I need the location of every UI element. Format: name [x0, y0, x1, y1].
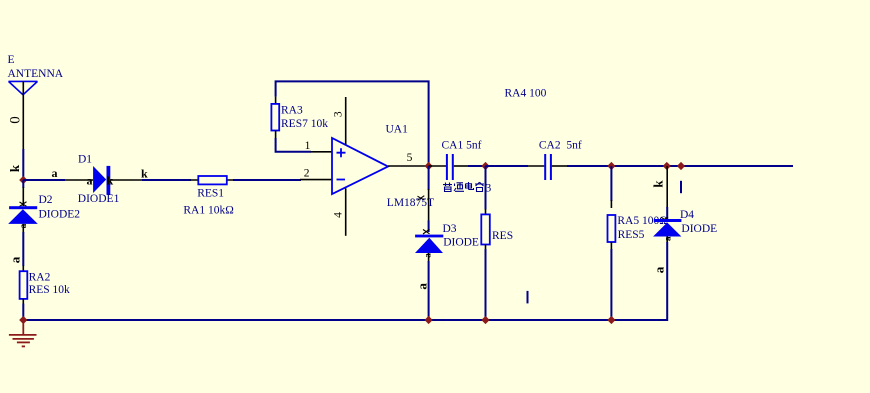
resistor RES8 top pin — [485, 209, 487, 214]
antenna pin (black stem) — [22, 81, 24, 150]
resistor RES8 bottom pin — [485, 245, 487, 251]
svg-text:0: 0 — [8, 116, 24, 124]
svg-text:RA2: RA2 — [29, 272, 51, 284]
RA5 branch — [610, 166, 612, 201]
diode D1 — [93, 166, 110, 195]
svg-text:3: 3 — [332, 111, 344, 117]
wire D1 to RES1 — [142, 179, 191, 181]
antenna E / ANTENNA symbol — [9, 81, 38, 94]
output junction — [425, 162, 433, 170]
diode D1 pin right — [110, 179, 142, 181]
resistor RA5 bottom pin — [610, 242, 612, 250]
op-amp U A1 triangle — [332, 138, 388, 194]
D3 pin below — [428, 253, 430, 262]
junction at 429,320 — [425, 316, 433, 324]
wire antenna to junction — [22, 149, 24, 179]
svg-text:k: k — [7, 164, 22, 172]
diode D1 pin left — [65, 179, 93, 181]
minus sign — [337, 179, 346, 181]
D4 branch pin — [666, 166, 668, 208]
svg-text:RA1 10kΩ: RA1 10kΩ — [183, 205, 233, 217]
bottom rail — [23, 319, 667, 321]
svg-text:RES1: RES1 — [197, 188, 224, 200]
plus sign — [337, 148, 346, 157]
svg-text:E: E — [8, 54, 15, 66]
resistor RA2 body — [20, 271, 28, 299]
junction at 667,166 — [663, 162, 671, 170]
wire CA1 to junction — [468, 165, 486, 167]
ground symbol — [9, 322, 37, 346]
small k cross near LM1875T — [418, 196, 425, 201]
svg-text:RES 10k: RES 10k — [29, 284, 70, 296]
svg-text:k: k — [651, 180, 666, 188]
svg-text:a: a — [423, 253, 433, 258]
diode D4 — [653, 219, 681, 237]
resistor RA5 body — [608, 215, 616, 242]
junction at 485,320 — [481, 316, 489, 324]
svg-text:D1: D1 — [78, 153, 92, 165]
diode D2 bottom pin — [22, 224, 24, 233]
junction at 681,166 — [677, 162, 685, 170]
svg-text:a: a — [52, 166, 58, 180]
wire to D4 — [666, 207, 668, 220]
wire left net y=180 — [23, 179, 65, 181]
wire RA3 to pin1 — [276, 138, 311, 152]
capacitor CA2 left pin — [528, 165, 544, 167]
RES8 branch — [485, 166, 487, 210]
op-amp pin 4 — [345, 188, 347, 236]
wire RA5 to bottom rail — [610, 249, 612, 319]
junction at 611,166 — [607, 162, 615, 170]
junction at 23,320 — [19, 316, 27, 324]
resistor RES8 body — [481, 214, 490, 244]
svg-text:RA4 100: RA4 100 — [505, 88, 547, 100]
svg-text:DIODE2: DIODE2 — [39, 209, 81, 221]
capacitor CA2 right pin — [552, 165, 567, 167]
svg-text:ANTENNA: ANTENNA — [8, 68, 64, 80]
op-amp output pin 5 — [388, 165, 428, 167]
capacitor CA1 — [447, 154, 453, 180]
junction at 485,166 — [481, 162, 489, 170]
wire RES1 to pin2 — [233, 179, 301, 181]
op-amp pin 2 — [300, 179, 332, 181]
svg-text:CA2 5nf: CA2 5nf — [539, 139, 582, 151]
svg-text:UA1: UA1 — [386, 123, 409, 135]
svg-text:5: 5 — [407, 152, 413, 164]
svg-text:DIODE: DIODE — [443, 237, 479, 249]
op-amp pin 1 — [311, 151, 332, 153]
wire to D3 — [428, 221, 430, 233]
resistor RES1 body — [198, 176, 227, 184]
D4 pin below — [666, 237, 668, 244]
pin label k at D4 (cross) — [661, 217, 668, 222]
label 普通电容3 (drawn glyphs) — [443, 182, 484, 192]
capacitor CA1 right pin — [454, 165, 468, 167]
D2 branch: pin from junction down — [22, 180, 24, 188]
svg-text:RES: RES — [492, 230, 513, 242]
junction at 611,320 — [607, 316, 615, 324]
svg-text:RA3: RA3 — [281, 104, 303, 116]
svg-text:D4: D4 — [680, 209, 694, 221]
svg-text:a: a — [8, 256, 23, 263]
resistor RA2 bottom pin — [22, 299, 24, 305]
svg-text:1: 1 — [305, 140, 311, 152]
svg-text:a: a — [652, 266, 667, 273]
svg-text:RES5: RES5 — [618, 229, 645, 241]
resistor RA3 body — [271, 104, 279, 131]
svg-text:DIODE1: DIODE1 — [78, 193, 120, 205]
diode D2 top pin — [22, 187, 24, 206]
resistor RES1 pins — [191, 179, 234, 181]
svg-text:2: 2 — [304, 167, 310, 179]
svg-text:CA1 5nf: CA1 5nf — [442, 139, 482, 151]
svg-text:4: 4 — [333, 212, 345, 218]
feedback top wire — [276, 81, 429, 165]
node junction at 23,180 — [19, 176, 27, 184]
wire D2 to RA2 — [22, 232, 24, 266]
svg-text:D2: D2 — [39, 194, 53, 206]
capacitor CA2 — [545, 154, 551, 180]
resistor RA2 top pin — [22, 266, 24, 272]
wire D3 to bottom rail — [428, 261, 430, 319]
wire output to CA1 — [429, 165, 446, 167]
wire stub at 527 — [527, 291, 529, 304]
svg-text:k: k — [141, 167, 148, 181]
diode D3 — [415, 235, 443, 253]
svg-text:DIODE: DIODE — [681, 223, 717, 235]
svg-text:RES7 10k: RES7 10k — [281, 118, 328, 130]
resistor RA3 top pin — [275, 97, 277, 104]
wire RES8 to bottom rail — [485, 249, 487, 319]
D3 branch: pin from output junction down — [428, 166, 430, 190]
svg-text:D3: D3 — [443, 223, 457, 235]
wire D4 to bottom rail corner — [611, 242, 667, 320]
wire stub below 681 — [680, 181, 682, 193]
diode D2 — [8, 206, 38, 224]
resistor RA5 top pin — [610, 200, 612, 208]
op-amp pin 3 — [345, 97, 347, 145]
pin label k at D3 (cross) — [423, 229, 430, 234]
svg-text:a: a — [415, 283, 430, 290]
wire CA2 to right end — [567, 165, 793, 167]
resistor RA3 bottom pin — [275, 131, 277, 140]
svg-text:LM1875T: LM1875T — [387, 197, 434, 209]
pin label k at D2 (cross) — [20, 202, 27, 207]
wire RA2 to bottom rail — [22, 304, 24, 319]
svg-text:a: a — [87, 174, 93, 188]
wire junction to CA2 — [486, 165, 529, 167]
